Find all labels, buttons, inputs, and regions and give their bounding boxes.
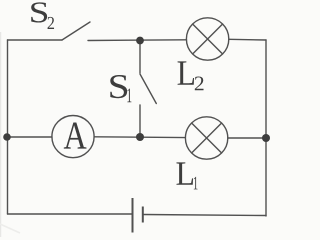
switch S2 blade bbox=[62, 22, 90, 40]
wire battery to bottom-right bbox=[144, 215, 267, 216]
wire top-right segment bbox=[229, 38, 266, 41]
node C junction dot (left) bbox=[3, 133, 11, 141]
battery long plate bbox=[132, 198, 134, 233]
wire middle-left segment bbox=[8, 136, 53, 138]
wire L1 to right vertical bbox=[228, 137, 266, 139]
wire ammeter to node B bbox=[94, 136, 185, 139]
lamp L1 bbox=[185, 117, 227, 159]
wire bottom-left to battery bbox=[8, 213, 133, 215]
lamp L2 bbox=[186, 18, 228, 60]
node A junction dot bbox=[136, 37, 144, 45]
wire S2 contact to node A bbox=[88, 39, 187, 42]
label S2 bbox=[31, 2, 54, 29]
battery short plate bbox=[142, 207, 144, 223]
switch S1 bottom segment bbox=[139, 105, 141, 137]
wire left vertical bbox=[7, 40, 9, 214]
wire top-left segment bbox=[8, 39, 63, 41]
label S1 bbox=[110, 75, 131, 102]
switch S1 blade bbox=[140, 74, 156, 104]
ammeter U1 bbox=[52, 116, 94, 158]
wire right vertical bbox=[265, 40, 267, 216]
switch S1 top segment bbox=[139, 42, 141, 73]
label L2 bbox=[178, 61, 204, 90]
node B junction dot bbox=[136, 133, 144, 141]
label L1 bbox=[176, 162, 197, 189]
node D junction dot (right) bbox=[262, 134, 270, 142]
